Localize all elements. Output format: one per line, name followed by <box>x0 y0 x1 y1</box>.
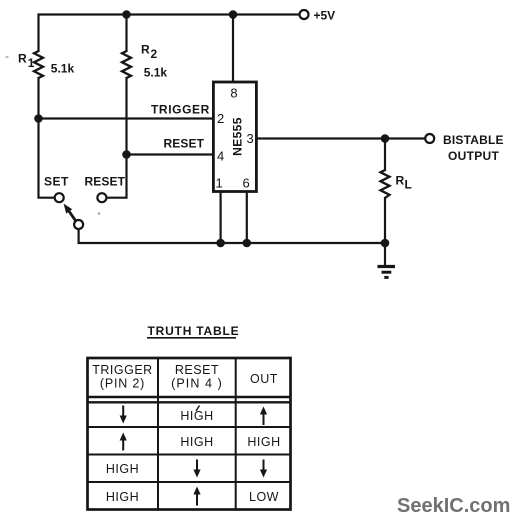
svg-text:2: 2 <box>217 111 224 126</box>
svg-text:1: 1 <box>28 56 35 70</box>
svg-text:R: R <box>396 174 405 188</box>
svg-text:5.1k: 5.1k <box>144 65 168 79</box>
svg-text:NE555: NE555 <box>231 117 245 156</box>
svg-text:HIGH: HIGH <box>106 462 139 476</box>
svg-text:8: 8 <box>230 86 237 101</box>
svg-text:OUT: OUT <box>250 372 278 386</box>
svg-text:R: R <box>141 43 150 57</box>
svg-text:HIGH: HIGH <box>180 409 213 423</box>
svg-text:5.1k: 5.1k <box>51 62 75 76</box>
svg-text:4: 4 <box>217 149 224 164</box>
svg-text:RESET: RESET <box>164 137 205 151</box>
svg-text:(PIN 2): (PIN 2) <box>100 377 145 391</box>
svg-text:HIGH: HIGH <box>247 435 280 449</box>
svg-text:TRIGGER: TRIGGER <box>151 103 210 117</box>
svg-text:RESET: RESET <box>175 363 219 377</box>
svg-text:R: R <box>18 52 27 66</box>
svg-text:RESET: RESET <box>85 175 126 189</box>
svg-text:TRUTH TABLE: TRUTH TABLE <box>148 324 240 338</box>
svg-text:HIGH: HIGH <box>106 490 139 504</box>
svg-text:(PIN 4 ): (PIN 4 ) <box>171 377 223 391</box>
svg-text:TRIGGER: TRIGGER <box>92 363 152 377</box>
svg-text:SeekIC.com: SeekIC.com <box>397 495 510 517</box>
svg-text:+5V: +5V <box>314 9 336 23</box>
svg-text:1: 1 <box>216 176 223 191</box>
svg-text:6: 6 <box>243 176 250 191</box>
svg-text:BISTABLE: BISTABLE <box>443 133 504 147</box>
svg-text:L: L <box>405 178 412 192</box>
svg-text:OUTPUT: OUTPUT <box>448 149 499 163</box>
svg-text:LOW: LOW <box>249 490 279 504</box>
svg-text:HIGH: HIGH <box>180 435 213 449</box>
svg-text:2: 2 <box>151 47 158 61</box>
svg-text:3: 3 <box>247 131 254 146</box>
svg-text:SET: SET <box>44 175 69 189</box>
